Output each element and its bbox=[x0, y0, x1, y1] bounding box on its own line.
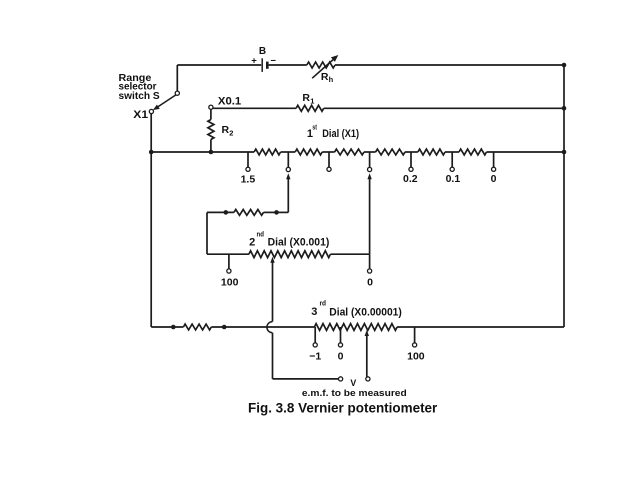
rheostat Rh bbox=[307, 55, 339, 84]
dial3 stud 100 bbox=[413, 327, 417, 347]
svg-text:nd: nd bbox=[257, 231, 264, 238]
dial3 stud 0 bbox=[338, 327, 342, 347]
wire row right bbox=[264, 211, 277, 213]
svg-text:switch S: switch S bbox=[119, 91, 160, 102]
dial1 stud 0.2 bbox=[409, 152, 413, 171]
svg-text:0: 0 bbox=[338, 351, 344, 363]
svg-text:100: 100 bbox=[221, 276, 239, 288]
dial1 resistor segment f bbox=[459, 149, 487, 155]
label dial3 100 bbox=[407, 351, 425, 363]
dial2 stud 100 bbox=[227, 254, 231, 273]
wire X0.1 to R1 bbox=[213, 107, 296, 109]
wire dial2 right bbox=[330, 253, 369, 255]
svg-text:st: st bbox=[312, 124, 317, 131]
svg-text:0.1: 0.1 bbox=[446, 173, 461, 185]
wire wiper-a down bbox=[277, 179, 289, 213]
wire dial2 wiper down 2 bbox=[272, 333, 274, 379]
svg-text:R: R bbox=[222, 124, 230, 136]
svg-text:2: 2 bbox=[229, 128, 233, 137]
svg-text:rd: rd bbox=[320, 301, 327, 308]
label Range selector switch S bbox=[119, 73, 160, 102]
svg-text:0: 0 bbox=[491, 173, 497, 185]
wire dial3 right bbox=[397, 326, 564, 328]
dial1 stud wiper-a bbox=[286, 152, 290, 172]
wire dial1 e-f bbox=[445, 151, 459, 153]
resistor R2 bbox=[208, 120, 234, 140]
wire rheostat to right bus bbox=[335, 64, 564, 66]
terminal V left bbox=[339, 377, 343, 381]
battery B bbox=[251, 46, 276, 72]
dial1 resistor segment d bbox=[376, 149, 405, 155]
label 3rd Dial (X0.00001) bbox=[311, 301, 402, 319]
label dial2 100 bbox=[221, 276, 239, 288]
wire battery to rheostat bbox=[269, 64, 307, 66]
dial1 resistor segment c bbox=[335, 149, 364, 155]
dial1 stud 1.5 bbox=[246, 152, 250, 171]
wire bottom left bbox=[151, 326, 183, 328]
svg-text:3: 3 bbox=[311, 306, 317, 318]
svg-text:100: 100 bbox=[407, 351, 425, 363]
wire R2 to dial1 bbox=[210, 140, 212, 153]
dial3 wiper arrow bbox=[365, 330, 369, 336]
svg-text:Fig. 3.8 Vernier potentiometer: Fig. 3.8 Vernier potentiometer bbox=[248, 401, 438, 416]
junction right-R1 bbox=[562, 106, 567, 111]
label dial2 0 bbox=[367, 276, 373, 288]
svg-text:X0.1: X0.1 bbox=[218, 95, 241, 107]
label 1.5 bbox=[241, 174, 256, 186]
label 1st Dial (X1) bbox=[307, 124, 359, 140]
svg-text:0: 0 bbox=[367, 276, 373, 288]
svg-text:0.2: 0.2 bbox=[403, 173, 418, 185]
wire X0.1 to R2 bbox=[210, 109, 212, 119]
junction row left bbox=[224, 210, 229, 215]
label 2nd Dial (X0.001) bbox=[249, 231, 330, 248]
dial2 stud 0 bbox=[368, 254, 372, 273]
wire dial3 wiper down bbox=[366, 336, 368, 377]
label V bbox=[350, 378, 356, 388]
dial1 stud wiper-b bbox=[368, 152, 372, 172]
label -1 bbox=[309, 351, 321, 363]
dial1 stud 0.1 bbox=[450, 152, 454, 171]
resistor bottom bbox=[183, 324, 211, 330]
switch X1 contact bbox=[149, 109, 153, 113]
wire wiper-b down bbox=[369, 179, 371, 255]
wire switch stem bbox=[176, 65, 178, 91]
wire dial1 right segment bbox=[487, 151, 565, 153]
junction bottom b bbox=[222, 325, 227, 330]
dial1 stud 0 bbox=[492, 152, 496, 171]
switch S pole contact bbox=[175, 91, 179, 95]
svg-text:Dial (X0.001): Dial (X0.001) bbox=[268, 237, 330, 249]
wire row drop to dial2 bbox=[206, 212, 208, 254]
junction left-dial1 bbox=[149, 150, 154, 155]
svg-text:V: V bbox=[350, 378, 356, 388]
wire to V left terminal bbox=[273, 378, 339, 380]
switch X0.1 contact bbox=[209, 105, 213, 109]
wire dial1 b-c bbox=[322, 151, 334, 153]
dial1 resistor segment a bbox=[254, 149, 281, 155]
junction right-top bbox=[562, 63, 567, 68]
svg-text:e.m.f. to be measured: e.m.f. to be measured bbox=[302, 388, 407, 398]
junction right-dial1 bbox=[562, 150, 567, 155]
label 0.1 bbox=[446, 173, 461, 185]
dial1 resistor segment b bbox=[295, 149, 322, 155]
wire dial1 left segment bbox=[151, 151, 254, 153]
dial2 wiper arrow bbox=[270, 257, 274, 263]
svg-text:−1: −1 bbox=[309, 351, 321, 363]
wire bottom b bbox=[211, 326, 314, 328]
wire right bus bbox=[563, 65, 565, 327]
wire dial1 d-e bbox=[405, 151, 418, 153]
junction R2-dial1 bbox=[209, 150, 214, 155]
svg-text:Dial (X0.00001): Dial (X0.00001) bbox=[329, 307, 402, 319]
svg-text:Dial (X1): Dial (X1) bbox=[322, 128, 359, 140]
caption Fig 3.8 bbox=[248, 401, 438, 416]
svg-text:h: h bbox=[329, 75, 334, 84]
svg-text:X1: X1 bbox=[133, 109, 148, 121]
dial1 wiper-a arrow bbox=[286, 173, 290, 179]
dial1 resistor segment e bbox=[418, 149, 445, 155]
dial3 resistor bbox=[314, 324, 397, 331]
junction row right bbox=[274, 210, 279, 215]
svg-text:2: 2 bbox=[249, 236, 255, 248]
series resistor between dials bbox=[234, 210, 264, 216]
dial1 wiper-b arrow bbox=[367, 173, 371, 179]
wire dial1 c-d bbox=[364, 151, 376, 153]
junction bottom a bbox=[171, 325, 176, 330]
dial1 stud mid bbox=[327, 152, 331, 171]
label X1 bbox=[133, 109, 148, 121]
wire top bus from switch to battery bbox=[177, 64, 261, 66]
wire row left bbox=[207, 211, 234, 213]
wire dial2 wiper down bbox=[272, 262, 274, 321]
wire left bus bbox=[150, 114, 152, 327]
svg-text:1: 1 bbox=[310, 96, 314, 105]
switch S blade bbox=[153, 95, 176, 110]
terminal V right bbox=[366, 377, 370, 381]
label X0.1 bbox=[218, 95, 241, 107]
wire dial2 left bbox=[207, 253, 249, 255]
dial2 resistor bbox=[249, 251, 331, 258]
wire dial1 a-b bbox=[281, 151, 296, 153]
wire hop over bottom bus bbox=[267, 322, 273, 333]
label dial3 0 bbox=[338, 351, 344, 363]
svg-text:R: R bbox=[302, 92, 310, 104]
svg-text:+: + bbox=[251, 55, 257, 66]
wire R1 to right bus bbox=[324, 107, 564, 109]
label emf to be measured bbox=[302, 388, 407, 398]
svg-text:B: B bbox=[259, 46, 266, 57]
label dial1 0 bbox=[491, 173, 497, 185]
svg-text:1.5: 1.5 bbox=[241, 174, 256, 186]
label 0.2 bbox=[403, 173, 418, 185]
resistor R1 bbox=[296, 92, 324, 112]
dial3 stud -1 bbox=[313, 327, 317, 347]
